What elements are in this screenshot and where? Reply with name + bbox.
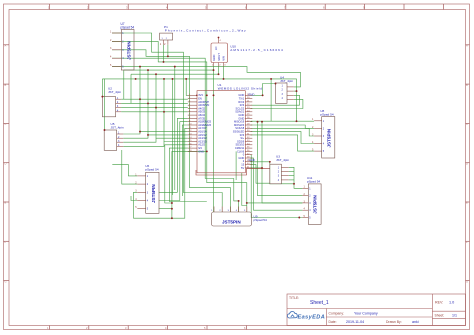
svg-text:A: A — [466, 44, 468, 48]
wire U10.2 drop — [218, 67, 220, 75]
U11 pin numbers — [304, 186, 306, 218]
connector U9 JST5PIN — [211, 207, 267, 227]
junction (294,183.8) — [293, 183, 295, 185]
wire H1 bus — [124, 69, 214, 71]
junction (271.1,78.9) — [270, 78, 272, 80]
U6 pin names — [147, 175, 149, 211]
wire U2.1 to U1 — [121, 98, 188, 100]
junction (172.5,78.9) — [172, 78, 174, 80]
svg-text:JST5PIN: JST5PIN — [127, 41, 132, 60]
U7 pin names — [122, 32, 124, 69]
wire U7.3 to U9.3 — [112, 50, 230, 212]
svg-text:C: C — [5, 122, 7, 126]
junction (171.9,208.7) — [171, 208, 173, 210]
wire U5.2 staircase to U1 — [123, 135, 188, 138]
EasyEDA logo — [287, 312, 325, 321]
connector U8 JST5PIN — [312, 109, 335, 158]
svg-text:anki: anki — [412, 320, 419, 324]
wire U8.4 to U1 SS — [251, 132, 315, 144]
U8 pin names — [323, 120, 325, 153]
junction (174.8,66.6) — [174, 66, 176, 68]
svg-text:pSpad 54: pSpad 54 — [320, 113, 334, 117]
junction (148,134.9) — [147, 134, 149, 136]
U9 pin stubs — [214, 207, 247, 213]
wire U7.4 to U9.4 — [112, 58, 239, 212]
junction (299.3,217.5) — [298, 217, 300, 219]
U10 pin numbers — [212, 40, 227, 67]
wire U3 pins tie — [289, 167, 294, 184]
svg-text:E: E — [5, 201, 7, 205]
connector U3 JST_4pin — [270, 155, 290, 184]
wire long vertical v174 — [174, 67, 176, 190]
junction (186.2,78.9) — [185, 78, 187, 80]
wire U5.3 staircase to U1 — [123, 138, 188, 142]
wire H1 left drop to U2.1 — [123, 70, 125, 99]
svg-text:1/1: 1/1 — [452, 314, 457, 318]
wire H2 bus — [131, 73, 219, 75]
wire U2.4 to U1 — [121, 111, 188, 113]
svg-text:Company:: Company: — [329, 312, 345, 316]
wire branch v164 — [163, 79, 165, 142]
svg-text:VOUT: VOUT — [217, 53, 221, 61]
U4 pin numbers — [282, 84, 284, 100]
junction (196.8,95.3) — [196, 95, 198, 97]
U8 pin stubs — [314, 121, 322, 151]
wire P1.1 drop — [163, 45, 165, 62]
svg-text:JST_4pin: JST_4pin — [280, 79, 293, 83]
wire U6.5 under box to U1 GND — [159, 151, 207, 208]
svg-text:D: D — [5, 161, 7, 165]
wire branch v140 — [139, 67, 141, 132]
wire U1 2 joins wrap — [251, 165, 270, 184]
junction (296.5,91.1) — [296, 90, 298, 92]
svg-text:B: B — [466, 83, 468, 87]
wire under U1 vertical to U9.5 riser — [242, 173, 247, 206]
wire U3.4 tie — [289, 179, 294, 181]
junction (102.4,96.6) — [101, 96, 103, 98]
wire H3 left drop to U5 corner — [101, 79, 103, 97]
wire branch v156 — [155, 74, 157, 138]
wire H3 bus — [102, 79, 296, 121]
junction (223.5,78.9) — [223, 78, 225, 80]
U4 pin stubs — [287, 87, 294, 100]
svg-text:Sheet:: Sheet: — [435, 314, 445, 318]
junction (262,121.7) — [261, 121, 263, 123]
junction (135.6,78.9) — [135, 78, 137, 80]
wire U7.1 to U9.1 — [112, 33, 222, 212]
U7 pin stubs — [112, 33, 121, 67]
wire U6.4 left — [131, 196, 137, 201]
wire U5.1 staircase to U1 — [123, 132, 188, 134]
wire U1 GND wrap around U3 to U11.1 — [251, 162, 303, 189]
junction (140,99.2) — [139, 98, 141, 100]
junction (167.9,56.3) — [167, 55, 169, 57]
wire U1 15 joins v262 — [251, 167, 263, 169]
svg-text:GND: GND — [248, 93, 254, 97]
wire U4.2 drop — [294, 90, 297, 92]
junction (213.5,95.3) — [213, 94, 215, 96]
wire U9.5 to U11.5 — [246, 203, 248, 212]
wire U2.3 to U1 — [121, 107, 188, 109]
U6 pin stubs — [137, 176, 145, 209]
svg-text:pSpad 54: pSpad 54 — [145, 168, 159, 172]
svg-text:GND: GND — [212, 55, 216, 61]
junction dots — [101, 37, 300, 220]
svg-text:EasyEDA: EasyEDA — [298, 315, 326, 321]
connector U5 JST_4pin — [104, 122, 124, 150]
svg-text:EN: EN — [215, 46, 218, 50]
junction (140,131.6) — [139, 131, 141, 133]
svg-text:Date:: Date: — [329, 320, 337, 324]
wire U1 GND right to U4 loop — [251, 94, 263, 96]
connector U6 JST5PIN — [135, 164, 159, 214]
wire U2.2 to U1 — [121, 102, 188, 104]
junction (140,66.6) — [139, 66, 141, 68]
junction (156,107.6) — [155, 107, 157, 109]
wire U7.5 to U4.1 — [112, 67, 300, 87]
connector U2 JST_4pin — [102, 87, 121, 117]
wire U1 0 to U11.4 — [251, 158, 303, 210]
wire U6.1 left — [112, 165, 137, 176]
junction (213.5,70.1) — [213, 69, 215, 71]
wire U8.2 to U1 MOSI — [251, 125, 315, 128]
wire U1 A14 staircase down — [182, 125, 188, 196]
wire U1 A12 down to U9 riser — [169, 148, 206, 201]
junction (104.5,130) — [104, 129, 106, 131]
wire red net to U3.1 — [196, 169, 270, 175]
wire U6.2 left — [122, 150, 138, 184]
wire U1 A16 staircase down — [172, 128, 188, 218]
svg-text:pSpad 54: pSpad 54 — [254, 218, 268, 222]
U11 pin names — [309, 187, 311, 219]
wire H2 left drop to U2.2 — [130, 74, 132, 103]
wire U1 CLK to U11.5 — [251, 155, 303, 218]
U2 pin stubs — [116, 99, 122, 112]
wire U1 A15 staircase down — [159, 122, 188, 201]
U7 pin numbers — [110, 30, 112, 67]
junction (156,74.2) — [155, 73, 157, 75]
svg-text:A: A — [5, 44, 7, 48]
wire U4.4 to U1 SCL — [251, 99, 303, 108]
module U1 WEMOS LOLIN32 Shield — [188, 83, 263, 173]
wire U3.2 tie — [289, 171, 294, 173]
wire U1 MISO to U8.1 — [251, 120, 315, 122]
svg-text:TITLE:: TITLE: — [289, 296, 299, 300]
junction (269.8,161.8) — [269, 161, 271, 163]
wires — [102, 33, 314, 218]
wire v271 — [270, 79, 272, 121]
svg-text:pSpad 54: pSpad 54 — [307, 180, 321, 184]
svg-text:REV:: REV: — [435, 301, 443, 305]
regulator U10 AMS1117-2.5 — [211, 38, 284, 67]
U5 pin numbers — [118, 132, 120, 147]
svg-text:JST5PIN: JST5PIN — [313, 194, 318, 213]
svg-text:JST5PIN: JST5PIN — [222, 220, 241, 225]
svg-text:D: D — [466, 161, 468, 165]
svg-text:E: E — [466, 201, 468, 205]
wire U4.3 to U1 3V3 — [251, 95, 300, 105]
svg-text:G: G — [5, 279, 7, 283]
svg-text:Phoenix_Contact_Combicon_2_Way: Phoenix_Contact_Combicon_2_Way — [165, 29, 247, 33]
svg-text:JST5PIN: JST5PIN — [327, 128, 332, 147]
wire under U1 vertical — [235, 151, 237, 180]
wire U10.3 drop — [223, 67, 225, 79]
junction (262.6,95.3) — [262, 94, 264, 96]
U2 pin numbers — [117, 97, 119, 113]
svg-text:C: C — [466, 122, 468, 126]
svg-text:Your Company: Your Company — [354, 312, 378, 316]
svg-text:pSpad 54: pSpad 54 — [121, 26, 135, 30]
junction (275.5,83.5) — [275, 83, 277, 85]
junction (262,167.9) — [261, 167, 263, 169]
connector U7 JST5PIN — [110, 22, 134, 70]
wire U1 9 staircase down — [159, 118, 188, 192]
U9 pin numbers — [211, 210, 246, 212]
title block — [287, 294, 466, 326]
wire U10.1 drop — [213, 67, 215, 213]
svg-text:VIN: VIN — [222, 56, 226, 61]
wire U6.3 loop — [134, 192, 172, 218]
svg-text:2019-11-04: 2019-11-04 — [346, 320, 364, 324]
junction (218.5,74.2) — [218, 73, 220, 75]
svg-text:JST_4pin: JST_4pin — [108, 90, 121, 94]
junction (206.8,151.4) — [206, 150, 208, 152]
svg-text:1.0: 1.0 — [449, 301, 454, 305]
wire U1 MISO drop to U11.2 — [258, 122, 303, 196]
P1 pin stubs — [164, 40, 168, 45]
svg-text:Drawn By:: Drawn By: — [386, 320, 402, 324]
connector U4 JST_4pin — [275, 75, 293, 103]
svg-text:WEMOS LOLIN32 Shield: WEMOS LOLIN32 Shield — [218, 87, 263, 91]
wire v262 MISO to U11.3 — [262, 122, 302, 203]
terminal block P1 Phoenix_Contact_Combicon_2_Way — [160, 25, 247, 46]
U5 pin stubs — [117, 134, 124, 146]
wire U8.3 to U1 SCK — [251, 128, 315, 136]
junction (246.8,202.9) — [246, 202, 248, 204]
wire v262 to U4 corner — [263, 84, 276, 96]
U10 bottom pin stubs — [214, 63, 224, 67]
junction (171.9,218.2) — [171, 217, 173, 219]
junction (171.9,203) — [171, 202, 173, 204]
wire U7.2 to U9.2 — [112, 41, 302, 203]
wire branch v148 — [147, 70, 149, 135]
connector U11 JST5PIN — [302, 176, 321, 224]
wire U8.5 to U1 3V3 — [251, 135, 315, 151]
U11 pin stubs — [302, 188, 308, 217]
junction (238.6,200.9) — [238, 200, 240, 202]
junction (148,103.4) — [147, 102, 149, 104]
wire long vertical v172 — [172, 79, 174, 195]
junction (296.5,121.2) — [296, 120, 298, 122]
wire U1 A13 down to U9 riser — [165, 145, 188, 203]
wire v186 to U1 3V3 — [186, 79, 188, 95]
svg-text:G: G — [466, 279, 468, 283]
wire U3.3 tie — [289, 175, 294, 177]
svg-text:JST5PIN: JST5PIN — [151, 184, 156, 203]
svg-text:Sheet_1: Sheet_1 — [310, 300, 329, 306]
junction (257.5,121.7) — [257, 121, 259, 123]
junction (164,78.9) — [163, 78, 165, 80]
junction (164,111.8) — [163, 111, 165, 113]
wire U5.4 staircase to U1 — [123, 142, 188, 147]
svg-text:GND: GND — [249, 158, 255, 162]
junction (163.5,61.9) — [163, 61, 165, 63]
U6 pin numbers — [135, 173, 137, 209]
svg-text:JST_4pin: JST_4pin — [111, 126, 124, 130]
junction (218.5,37.5) — [218, 37, 220, 39]
svg-text:JST_4pin: JST_4pin — [276, 158, 289, 162]
U3 pin numbers — [278, 166, 280, 182]
junction (206.8,95.3) — [206, 94, 208, 96]
U8 pin numbers — [312, 118, 314, 151]
svg-text:AMS1117-2.5_C166064: AMS1117-2.5_C166064 — [230, 48, 284, 52]
svg-text:B: B — [5, 83, 7, 87]
svg-text:5V: 5V — [241, 166, 244, 170]
P1 pin numbers — [160, 42, 166, 46]
wire P1.2 drop — [167, 45, 169, 57]
junction (148,70.1) — [147, 69, 149, 71]
wire H3 drop to U5 corner — [104, 79, 106, 130]
svg-text:GND: GND — [198, 149, 204, 153]
U3 pin stubs — [281, 167, 288, 180]
